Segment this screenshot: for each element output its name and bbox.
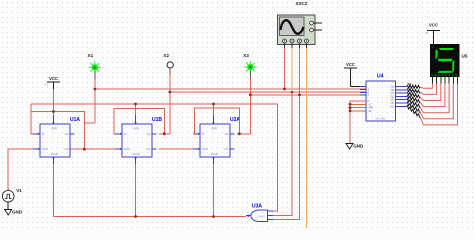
svg-text:V1: V1 [16,188,22,193]
svg-text:U3A: U3A [252,204,262,210]
svg-text:~1PR: ~1PR [210,127,217,131]
X3 riser wire [249,78,251,134]
VCC symbol above U4 [344,62,366,86]
wire V1 to U1A CLK [8,149,33,190]
flip-flop U1A [33,115,80,164]
X1 riser wire [94,80,96,123]
svg-text:GND: GND [12,210,23,215]
decoder U4 [360,74,407,122]
svg-text:~1Q: ~1Q [224,147,229,151]
wire U1B Q to X2 [159,133,170,135]
wire U1A Q to U1B CLK [71,148,115,150]
svg-text:1Q: 1Q [147,132,150,136]
node L1 (QA bus) [95,88,366,90]
svg-text:OG: OG [390,105,394,108]
svg-text:1CLK: 1CLK [202,147,209,151]
flip-flop U2A [193,115,240,164]
probe X2 [163,53,173,74]
svg-text:U4: U4 [377,74,384,80]
wire bundle U4 to display [407,85,420,118]
probe X1 [88,53,101,79]
AND gate U3A [246,204,273,222]
svg-text:1CLK: 1CLK [124,147,131,151]
oscilloscope XSC2 [278,1,323,48]
U2A feedback loop [193,108,239,134]
svg-text:~1Q: ~1Q [146,147,151,151]
U1B feedback loop [114,108,164,134]
svg-text:U5: U5 [462,54,468,59]
scope T4 wire (orange) [306,48,308,228]
svg-text:~1PR: ~1PR [50,127,57,131]
display segment wires [420,77,458,125]
svg-text:~1PR: ~1PR [132,127,139,131]
scope T2 wire (orange) [291,48,293,92]
svg-text:~1CLR: ~1CLR [131,152,139,156]
svg-text:~BI: ~BI [368,110,372,113]
U1B preset riser [135,104,137,115]
svg-text:~1Q: ~1Q [64,147,69,151]
ground symbol near U4 [346,144,365,150]
svg-text:GND: GND [353,144,364,149]
svg-text:1CLK: 1CLK [42,147,49,151]
svg-text:74LS11: 74LS11 [258,216,266,218]
ground for V1 [4,202,23,215]
flip-flop U1B [115,115,162,164]
node L3 (QC bus) [250,94,366,96]
svg-text:VCC: VCC [346,62,355,67]
svg-text:X1: X1 [88,53,94,58]
U3A input 1 riser [273,104,278,211]
svg-text:VCC GND: VCC GND [375,118,386,120]
svg-text:X3: X3 [243,53,249,58]
U1A feedback loop [31,104,33,134]
svg-text:5V: 5V [45,82,48,86]
svg-text:C: C [368,94,370,97]
svg-text:~1CLR: ~1CLR [209,152,217,156]
scope T1 wire [284,48,286,89]
node L2 (QB bus) [170,91,366,93]
svg-text:B1: B1 [408,82,412,86]
U3A input 3 riser (to scope T3) [273,48,300,219]
svg-text:U2A: U2A [230,117,240,123]
svg-text:U1B: U1B [152,117,162,123]
VCC rail symbol (left) [45,76,60,115]
clear net wire (bottom) [54,164,247,217]
svg-text:X2: X2 [163,53,169,58]
svg-text:U1A: U1A [70,117,80,123]
svg-text:VCC: VCC [49,76,58,81]
probe X3 [243,53,256,78]
svg-text:1Q: 1Q [65,132,68,136]
svg-text:5V: 5V [425,31,428,35]
VCC symbol above display [425,23,440,45]
seven-segment display U5 [430,44,468,77]
svg-text:1Q: 1Q [225,132,228,136]
wire U2A Q to X3 [237,133,250,135]
node L4 VCC/preset line [31,103,277,105]
X2 riser wire [169,74,171,134]
clock source V1 [2,188,22,202]
svg-text:VCC: VCC [429,23,438,28]
svg-text:~1CLR: ~1CLR [49,152,57,156]
svg-text:XSC2: XSC2 [296,1,308,6]
U4 grounded pins wires [350,101,366,144]
junction VCC/loop [52,110,55,113]
U2A preset riser [213,104,215,115]
U3A input 2 riser [273,92,292,216]
wire U1B Qbar to U2A CLK [159,148,193,150]
